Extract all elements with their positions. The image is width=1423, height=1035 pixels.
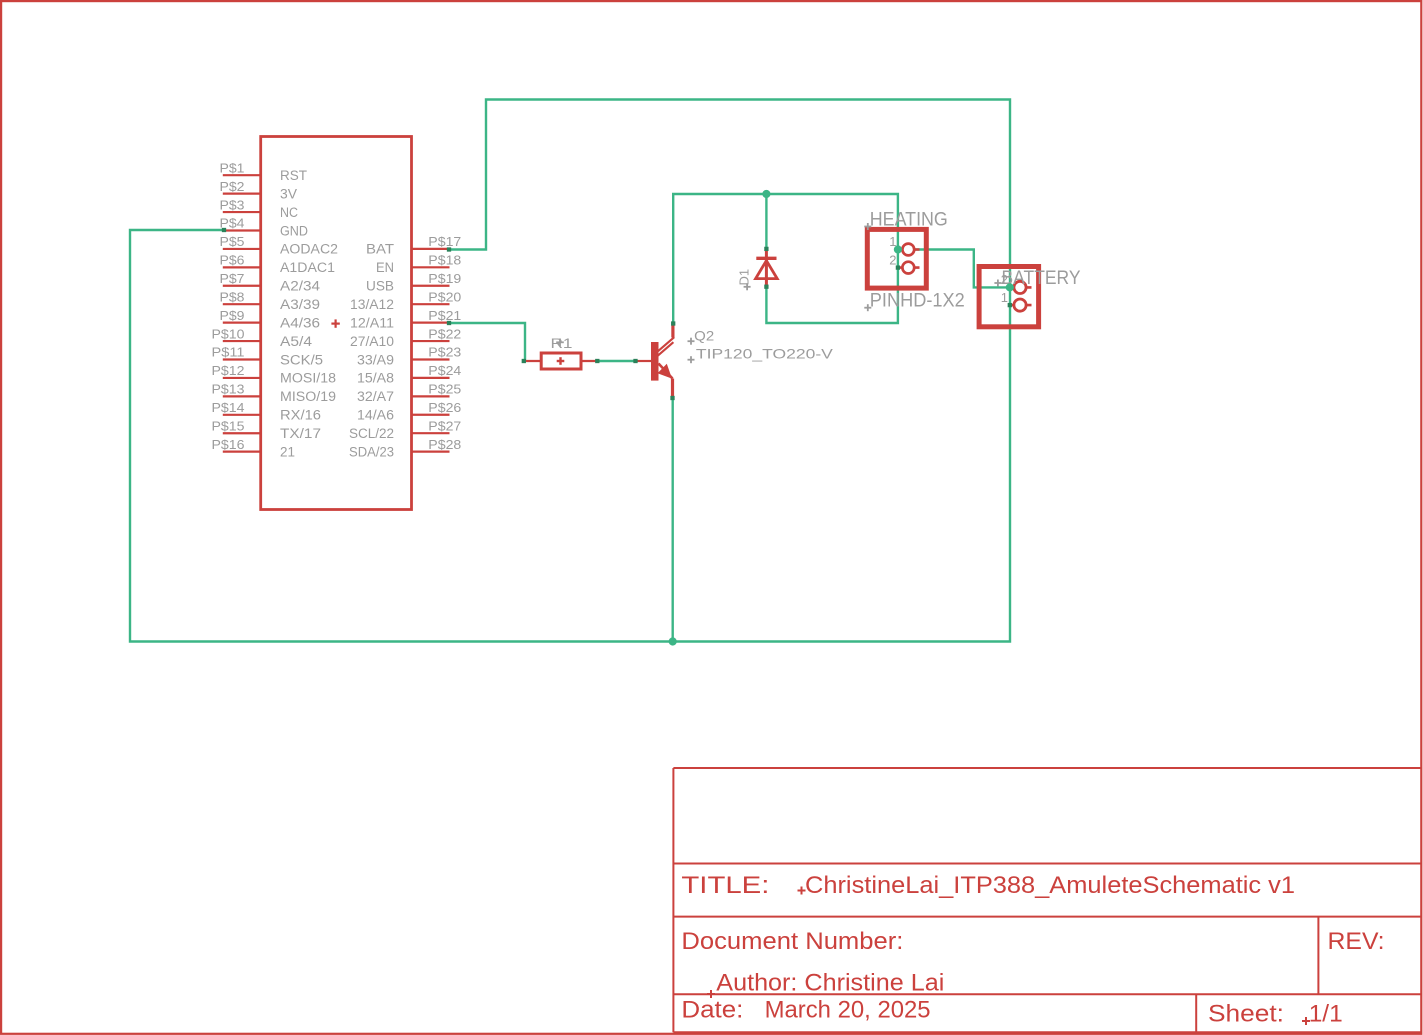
svg-text:P$1: P$1 [220, 161, 245, 175]
svg-text:Sheet:: Sheet: [1208, 1001, 1284, 1028]
svg-text:TIP120_TO220-V: TIP120_TO220-V [696, 346, 834, 362]
svg-text:P$13: P$13 [212, 383, 245, 397]
svg-text:RST: RST [280, 168, 307, 183]
svg-text:P$22: P$22 [428, 327, 461, 341]
svg-text:14/A6: 14/A6 [357, 408, 394, 423]
svg-text:P$27: P$27 [428, 419, 461, 433]
svg-text:REV:: REV: [1328, 928, 1385, 955]
svg-text:1: 1 [1001, 290, 1008, 305]
svg-text:1/1: 1/1 [1309, 1001, 1343, 1028]
svg-text:PINHD-1X2: PINHD-1X2 [870, 291, 965, 312]
svg-text:Author: Christine Lai: Author: Christine Lai [716, 970, 944, 997]
svg-text:P$18: P$18 [428, 254, 461, 268]
svg-text:Q2: Q2 [694, 328, 714, 344]
svg-text:P$10: P$10 [212, 327, 245, 341]
svg-text:P$20: P$20 [428, 290, 461, 304]
svg-text:TX/17: TX/17 [280, 426, 321, 441]
svg-text:12/A11: 12/A11 [350, 315, 394, 330]
svg-text:A4/36: A4/36 [280, 315, 320, 330]
svg-text:P$8: P$8 [220, 290, 245, 304]
svg-text:27/A10: 27/A10 [350, 334, 394, 349]
svg-text:SCL/22: SCL/22 [349, 426, 394, 441]
svg-text:USB: USB [366, 279, 394, 294]
svg-text:March 20, 2025: March 20, 2025 [765, 996, 931, 1023]
svg-text:P$21: P$21 [428, 309, 461, 323]
svg-text:P$23: P$23 [428, 346, 461, 360]
svg-text:Document Number:: Document Number: [681, 928, 903, 955]
svg-text:P$28: P$28 [428, 438, 461, 452]
svg-text:P$26: P$26 [428, 401, 461, 415]
svg-text:A3/39: A3/39 [280, 297, 320, 312]
svg-text:2: 2 [889, 252, 896, 267]
svg-text:3V: 3V [280, 186, 297, 201]
svg-text:15/A8: 15/A8 [357, 371, 394, 386]
svg-text:A1DAC1: A1DAC1 [280, 260, 335, 275]
svg-text:P$15: P$15 [212, 419, 245, 433]
svg-text:A2/34: A2/34 [280, 279, 321, 294]
svg-text:32/A7: 32/A7 [357, 389, 394, 404]
svg-text:EN: EN [376, 260, 394, 275]
svg-text:SDA/23: SDA/23 [349, 444, 394, 459]
svg-text:P$2: P$2 [220, 180, 245, 194]
svg-text:P$9: P$9 [220, 309, 245, 323]
svg-text:MOSI/18: MOSI/18 [280, 371, 336, 386]
svg-text:P$16: P$16 [212, 438, 245, 452]
svg-text:NC: NC [280, 205, 298, 220]
svg-text:P$5: P$5 [220, 235, 245, 249]
svg-text:MISO/19: MISO/19 [280, 389, 336, 404]
svg-text:RX/16: RX/16 [280, 408, 321, 423]
svg-text:TITLE:: TITLE: [681, 872, 769, 899]
svg-text:P$14: P$14 [212, 401, 245, 415]
svg-text:21: 21 [280, 444, 295, 459]
svg-text:HEATING: HEATING [870, 210, 948, 231]
svg-text:D1: D1 [737, 269, 752, 286]
svg-text:P$12: P$12 [212, 364, 245, 378]
svg-text:GND: GND [280, 223, 308, 238]
svg-text:AODAC2: AODAC2 [280, 242, 338, 257]
svg-text:33/A9: 33/A9 [357, 352, 394, 367]
svg-text:P$11: P$11 [212, 346, 245, 360]
svg-text:P$17: P$17 [428, 235, 461, 249]
svg-text:P$7: P$7 [220, 272, 245, 286]
svg-text:P$25: P$25 [428, 383, 461, 397]
svg-text:P$3: P$3 [220, 198, 245, 212]
svg-text:P$6: P$6 [220, 254, 245, 268]
svg-text:BAT: BAT [366, 242, 394, 257]
svg-text:SCK/5: SCK/5 [280, 352, 323, 367]
svg-text:A5/4: A5/4 [280, 334, 313, 349]
svg-text:P$24: P$24 [428, 364, 461, 378]
svg-text:ChristineLai_ITP388_AmuleteSch: ChristineLai_ITP388_AmuleteSchematic v1 [805, 872, 1295, 899]
svg-text:13/A12: 13/A12 [350, 297, 394, 312]
svg-text:Date:: Date: [681, 996, 743, 1023]
svg-text:P$19: P$19 [428, 272, 461, 286]
